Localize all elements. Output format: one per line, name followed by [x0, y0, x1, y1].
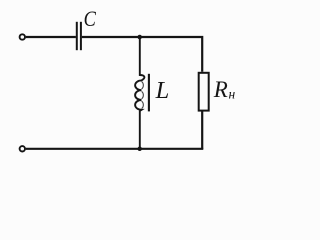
capacitor C plates	[76, 22, 78, 50]
inductor core line	[148, 74, 150, 112]
node: bottom junction	[137, 147, 142, 152]
resistor Rн box	[199, 73, 209, 111]
inductor L right lobe 1	[142, 82, 144, 89]
terminal bottom-left	[20, 146, 25, 151]
terminal top-left	[20, 34, 25, 39]
node: top junction	[137, 35, 142, 40]
inductor L right lobe 3	[142, 101, 144, 108]
svg-text:L: L	[155, 77, 170, 104]
wire: top-left terminal to capacitor	[26, 36, 76, 38]
wire: bottom rail	[26, 148, 204, 150]
inductor L right lobe 2	[142, 91, 144, 98]
wire: resistor bottom to bottom wire	[201, 111, 203, 149]
wire: capacitor to top-right corner, down to resistor	[82, 37, 202, 72]
inductor L coil	[135, 37, 144, 149]
svg-text:C: C	[84, 6, 97, 31]
